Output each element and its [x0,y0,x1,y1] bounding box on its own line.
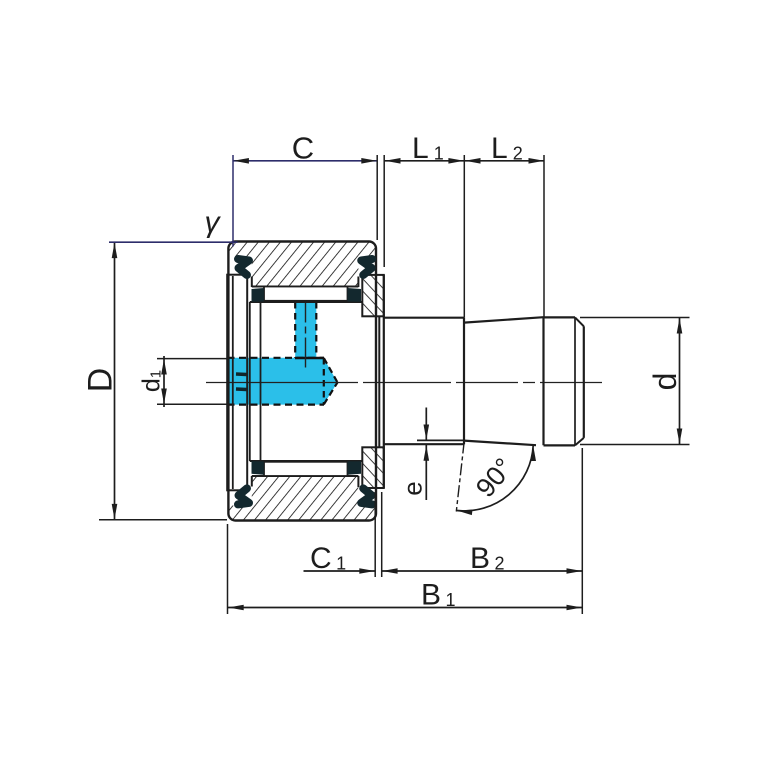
svg-text:L2: L2 [491,132,523,165]
stud bottom surface [250,460,362,462]
dimension L1 line [385,160,464,162]
grease hole vertical axis [305,293,307,368]
grease passage vertical (cyan) [295,302,316,359]
stud head step line 2 [260,302,262,461]
shaft fillet line at flange [378,316,380,447]
d1 extension line bottom [157,403,227,405]
svg-text:D: D [82,368,120,393]
svg-text:C: C [292,131,314,166]
svg-text:d1: d1 [138,370,166,392]
needle retainer block bottom-right [348,461,362,475]
solid ledge over passage junction [295,357,324,360]
roller bottom hatched band [228,476,376,521]
grease hole dashed outline top [228,357,325,359]
dimension C1 line [304,570,376,572]
stud head step line 1 [249,302,251,461]
vertical passage right dashed edge [315,302,317,358]
needle rollers top [264,287,348,301]
vertical passage left dashed edge [294,302,296,358]
svg-text:L1: L1 [412,132,444,165]
grease hole dashed outline bottom [228,404,325,406]
roller outer ring outline [228,242,376,521]
center axis horizontal [206,382,610,384]
dimension L2 line [465,160,545,162]
roller top inner surface line [252,286,359,288]
dimension d line [679,318,681,445]
seal top-left [238,259,249,275]
seal bottom-left [238,488,249,504]
dimension B1 line [228,607,582,609]
bottom extension line roller face [374,492,376,577]
L1/L2 extension line (step) [463,155,465,318]
svg-text:d: d [647,373,683,391]
shaft end face [583,326,585,438]
svg-text:C1: C1 [310,542,346,575]
bottom extension line shaft end [581,448,583,614]
bottom extension line flange face [381,492,383,577]
dimension e arrows [425,408,427,441]
roller seal groove wall top-left [251,277,253,288]
svg-text:B2: B2 [470,542,505,575]
shaft segment2 top slant [464,317,544,322]
drill cone upper edge [324,358,338,382]
shaft segment2/3 boundary [542,317,544,445]
90 degree angle leg [456,442,464,512]
dimension C line [233,160,377,162]
needle retainer block top-left [252,288,264,302]
svg-text:B1: B1 [421,579,456,612]
roller seal groove wall top-right [357,277,359,288]
L1 extension line left (flange face) [383,155,385,267]
needle retainer block top-right [348,288,362,302]
drill cone base dashed [323,358,325,404]
svg-text:90°: 90° [470,452,519,503]
flange upper piece hatched [362,275,384,316]
dimension B2 line [382,570,582,572]
90 degree arc [457,446,533,511]
D extension line top [109,241,238,243]
flange right face full [383,275,385,488]
L2 extension line right [543,155,545,317]
seal bottom-right [361,488,372,504]
d1 extension line top [157,358,227,360]
D extension line bottom [99,519,227,521]
needle rollers bottom [264,462,348,476]
shaft pilot bottom edge [544,444,576,446]
grease nipple thread hidden marks [236,372,247,376]
dimension d1 line [163,356,165,407]
C extension line right (roller face) [376,155,378,240]
bottom extension line bearing left [227,524,229,614]
shaft end chamfer top [575,317,584,326]
shaft step face [463,318,465,445]
roller top hatched band [228,242,376,287]
grease passage horizontal (cyan) [228,358,338,405]
side plate inner chamfer line [232,276,234,489]
shaft segment1 bottom edge [384,443,464,445]
dimension d extension bottom [580,444,690,446]
drill cone lower edge [324,382,338,404]
C extension line left [232,155,234,247]
svg-text:γ: γ [205,206,222,239]
dimension D line [114,242,116,520]
svg-text:e: e [398,481,428,495]
flange lower piece hatched [362,447,384,488]
seal top-right [361,259,372,275]
shaft pilot chamfer line [574,318,576,446]
roller seal groove wall bottom-left [251,476,253,487]
shaft pilot top edge [544,316,576,318]
dimension d extension top [580,317,690,319]
stud top surface [250,301,362,303]
shaft end chamfer bottom [575,438,584,446]
roller seal groove wall bottom-right [357,476,359,487]
side plate (stud head washer) [227,275,247,491]
eccentric reference line e [417,439,464,441]
shaft segment2 bottom slant [464,441,536,446]
shaft segment1 top edge [384,317,464,319]
needle retainer block bottom-left [252,461,264,475]
roller bottom inner surface line [252,475,359,477]
